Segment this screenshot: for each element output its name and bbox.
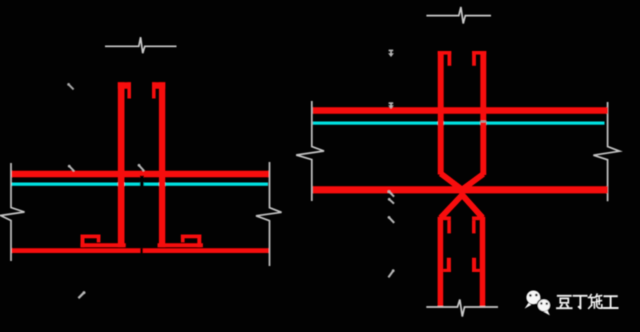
figure 2 : left extent line with break xyxy=(296,101,324,201)
figure 1 : right support clip lip xyxy=(181,235,185,243)
figure 2 : upper-left C-stud web xyxy=(438,51,444,175)
figure 2 : splice diagonal A upper xyxy=(441,174,463,191)
figure 2 : cyan board line xyxy=(313,122,605,125)
figure 2 : splice diagonal B lower xyxy=(441,193,464,218)
watermark : wechat logo big bubble xyxy=(525,291,541,309)
figure 2 : lower-left stud hook 1 flange xyxy=(443,216,451,220)
figure 1 : left C-stud top lip xyxy=(127,82,131,98)
figure 1 : right extent line with break xyxy=(256,162,282,266)
figure 1 : board joint gap in band 1 xyxy=(140,176,144,186)
figure 2 : dimension arrow M7a xyxy=(388,190,395,196)
figure 2 : lower-right stud hook 2 bottom flange xyxy=(472,269,480,272)
figure 1 : left support clip riser xyxy=(81,235,85,248)
figure 2 : dimension arrow M7b xyxy=(388,198,394,204)
figure 2 : splice diagonal B upper xyxy=(462,174,484,190)
figure 2 : upper-right C-stud web xyxy=(480,51,486,175)
figure 2 : dimension arrow M8 xyxy=(388,216,395,223)
figure 2 : bottom break line xyxy=(426,300,498,317)
figure 2 : dimension arrow M5 xyxy=(388,50,394,57)
figure 2 : dimension arrow M9 xyxy=(388,269,394,277)
figure 2 : lower slab line (red band 2) xyxy=(313,186,608,193)
figure 1 : left C-stud top flange xyxy=(118,82,131,89)
figure 2 : top break line xyxy=(426,7,491,24)
figure 1 : left support clip lip xyxy=(97,235,101,243)
figure 1 : right support clip riser xyxy=(197,235,201,248)
figure 1 : right support clip base xyxy=(158,243,203,247)
figure 1 : cyan board line xyxy=(12,183,269,186)
watermark : text shi (施) xyxy=(589,294,602,308)
figure 1 : leader arrow mark M3 xyxy=(78,291,85,298)
figure 2 : lower-left stud hook 1 lip xyxy=(447,220,451,233)
figure 1 : left extent line with break xyxy=(1,163,25,261)
figure 2 : lower-left stud hook 2 lip xyxy=(447,258,451,272)
figure 1 : top break line xyxy=(105,37,177,53)
figure 2 : upper-left C-stud top flange xyxy=(438,51,452,55)
watermark : text gong (工) xyxy=(604,296,618,308)
figure 1 : leader arrow mark M2 xyxy=(138,164,145,171)
figure 1 : upper slab line (red band 1) xyxy=(12,171,270,178)
figure 1 : leader arrow mark M4 xyxy=(67,83,73,89)
figure 1 : right C-stud top flange xyxy=(152,82,165,89)
figure 2 : white artifact tick on upper-right stud xyxy=(480,121,486,123)
figure 1 : right C-stud top lip xyxy=(152,82,156,98)
figure 2 : lower-left stud hook 2 bottom flange xyxy=(443,269,451,272)
figure 2 : upper-right C-stud top lip xyxy=(472,51,476,66)
figure 1 : left C-stud web xyxy=(118,82,125,247)
figure 2 : upper-right C-stud top flange xyxy=(472,51,486,55)
watermark : text ding (丁) xyxy=(574,296,587,308)
watermark : wechat logo small bubble xyxy=(537,299,550,316)
figure 2 : upper slab line (red band 1) xyxy=(313,107,608,114)
figure 2 : lower-right stud hook 2 lip xyxy=(472,258,476,272)
figure 1 : leader arrow mark M1 xyxy=(68,165,74,171)
figure 2 : lower-right C-stud web xyxy=(480,217,486,308)
figure 2 : right extent line with break xyxy=(593,102,619,201)
watermark : text dou (豆) xyxy=(557,296,572,308)
figure 1 : left support clip base xyxy=(80,243,125,247)
figure 1 : board joint gap in band 2 xyxy=(140,248,143,253)
figure 2 : lower-right stud hook 1 lip xyxy=(472,220,476,233)
figure 2 : upper-left C-stud top lip xyxy=(448,51,452,66)
figure 1 : left support clip top bar xyxy=(81,235,101,239)
figure 2 : lower-right stud hook 1 flange xyxy=(472,216,480,220)
figure 2 : splice diagonal A lower xyxy=(461,193,483,218)
figure 2 : dimension arrow M6 xyxy=(388,102,394,109)
figure 1 : right support clip top bar xyxy=(181,235,201,239)
figure 1 : right C-stud web xyxy=(159,82,165,247)
figure 2 : lower-left C-stud web xyxy=(438,217,444,308)
figure 1 : lower slab line (red band 2) xyxy=(12,248,270,253)
